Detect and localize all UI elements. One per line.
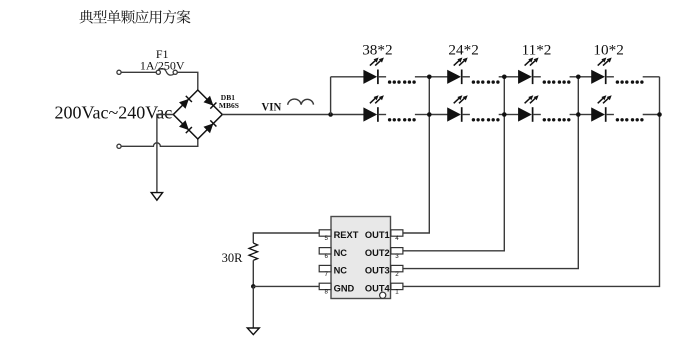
wire: group4 bottom row lead-in [578, 114, 591, 116]
wire: group2 bottom row lead-in [429, 114, 447, 116]
junction C1 top [427, 75, 432, 80]
wire: group2 bottom row to column [499, 114, 505, 116]
svg-text:OUT3: OUT3 [365, 266, 390, 276]
wire: group4 top stub after LED [606, 76, 614, 78]
dots: more LEDs group1 bottom [388, 118, 391, 121]
dots: more LEDs group3 top [543, 80, 546, 83]
svg-text:1: 1 [395, 289, 399, 296]
dots: more LEDs group4 bottom [616, 118, 619, 121]
junction: bottom rail right end [657, 112, 662, 117]
wire: group1 bottom stub after LED [378, 114, 386, 116]
wire: tap column 3 (OUT3) [403, 77, 578, 269]
bridge diode upper-left [179, 99, 189, 109]
pin 1 (OUT4) [391, 283, 403, 289]
wire: group2 top row lead-in [429, 76, 447, 78]
wire: bridge left corner to ground rail [157, 115, 173, 193]
junction: resistor/GND wire [251, 284, 256, 289]
junction C2 bottom [502, 112, 507, 117]
dots: more LEDs group1 top [388, 80, 391, 83]
wire: tap column 1 (OUT1) [403, 77, 429, 233]
svg-text:5: 5 [324, 235, 328, 242]
bridge diode lower-left [179, 120, 189, 130]
svg-text:REXT: REXT [334, 230, 359, 240]
wire: group1 top row lead-in [331, 76, 364, 78]
fuse F1 [156, 69, 177, 76]
svg-text:7: 7 [324, 271, 328, 278]
svg-text:11*2: 11*2 [522, 42, 552, 59]
pin 7 (NC) [319, 265, 331, 271]
svg-text:GND: GND [334, 283, 355, 293]
pin 4 (OUT1) [391, 230, 403, 236]
svg-text:NC: NC [334, 248, 348, 258]
wire: group3 top stub after LED [533, 76, 541, 78]
svg-text:10*2: 10*2 [593, 42, 623, 59]
resistor 30R [249, 243, 258, 260]
junction C3 bottom [576, 112, 581, 117]
wire: group1 top stub after LED [378, 76, 386, 78]
wire: group3 bottom row to column [570, 114, 579, 116]
svg-text:200Vac~240Vac: 200Vac~240Vac [55, 103, 173, 123]
svg-text:8: 8 [324, 289, 328, 296]
wire: group2 top row to column [499, 76, 505, 78]
pin 8 (GND) [319, 283, 331, 289]
svg-text:3: 3 [395, 253, 399, 260]
svg-text:24*2: 24*2 [448, 42, 478, 59]
LED string 3 bottom [518, 108, 531, 121]
svg-text:MB6S: MB6S [219, 101, 239, 110]
dots: more LEDs group4 top [616, 80, 619, 83]
wire: riser to top rail [330, 77, 332, 115]
bridge rectifier DB1 MB6S [173, 90, 222, 139]
wire: right column (OUT4 tap) [403, 77, 660, 287]
wire: group4 bottom stub after LED [606, 114, 614, 116]
AC input terminal bottom [117, 144, 121, 148]
ground (signal) [247, 328, 259, 335]
svg-text:1A/250V: 1A/250V [140, 59, 185, 73]
LED string 4 top [592, 70, 605, 83]
wire: group1 bottom row to column [415, 114, 429, 116]
pin 6 (NC) [319, 248, 331, 254]
junction C1 bottom [427, 112, 432, 117]
wire: group4 top row to column [643, 76, 660, 78]
svg-text:30R: 30R [222, 251, 244, 265]
LED string 3 top [518, 70, 531, 83]
wire: GND pin to junction [253, 285, 319, 287]
svg-text:6: 6 [324, 253, 328, 260]
wire: group3 top row to column [570, 76, 579, 78]
LED string 1 bottom [364, 108, 377, 121]
svg-text:VIN: VIN [262, 100, 282, 114]
LED string 1 top [364, 70, 377, 83]
wire: group3 bottom stub after LED [533, 114, 541, 116]
junction: VIN rail / riser [328, 112, 333, 117]
wire: bottom terminal to bridge bottom corner (hop over ground rail) [121, 139, 198, 146]
pin 3 (OUT2) [391, 248, 403, 254]
wire: group3 bottom row lead-in [504, 114, 518, 116]
wire: group4 top row lead-in [578, 76, 591, 78]
LED string 2 top [448, 70, 461, 83]
IC U1 body [331, 217, 391, 299]
junction C2 top [502, 75, 507, 80]
svg-text:OUT2: OUT2 [365, 248, 390, 258]
ground (AC side) [151, 193, 162, 201]
wire: group4 bottom row to column [643, 114, 660, 116]
pin 5 (REXT) [319, 230, 331, 236]
wire: group3 top row lead-in [504, 76, 518, 78]
IC pin1 indicator circle [380, 292, 386, 298]
wire: top terminal to fuse [121, 71, 156, 73]
svg-text:NC: NC [334, 266, 348, 276]
inductor [288, 99, 314, 105]
dots: more LEDs group3 bottom [543, 118, 546, 121]
svg-text:OUT1: OUT1 [365, 230, 390, 240]
bridge diode lower-right [204, 123, 214, 133]
wire: tap column 2 (OUT2) [403, 77, 504, 251]
LED string 2 bottom [448, 108, 461, 121]
dots: more LEDs group2 top [472, 80, 475, 83]
AC input terminal top [117, 70, 121, 74]
wire: group1 top row to column [415, 76, 429, 78]
wire: fuse to bridge top corner [177, 72, 198, 90]
wire: resistor to GND net [252, 260, 254, 286]
wire: bridge right corner to VIN rail [222, 114, 363, 116]
junction C3 top [576, 75, 581, 80]
wire: REXT to resistor [253, 233, 319, 243]
wire: group2 top stub after LED [462, 76, 470, 78]
bridge diode upper-right [204, 96, 214, 106]
dots: more LEDs group2 bottom [472, 118, 475, 121]
LED string 4 bottom [592, 108, 605, 121]
svg-text:OUT4: OUT4 [365, 283, 391, 293]
wire: group2 bottom stub after LED [462, 114, 470, 116]
svg-text:38*2: 38*2 [362, 42, 392, 59]
wire: junction down to ground [252, 286, 254, 328]
pin 2 (OUT3) [391, 265, 403, 271]
title 典型单颗应用方案 [79, 10, 190, 24]
svg-text:4: 4 [395, 235, 399, 242]
svg-text:2: 2 [395, 271, 399, 278]
